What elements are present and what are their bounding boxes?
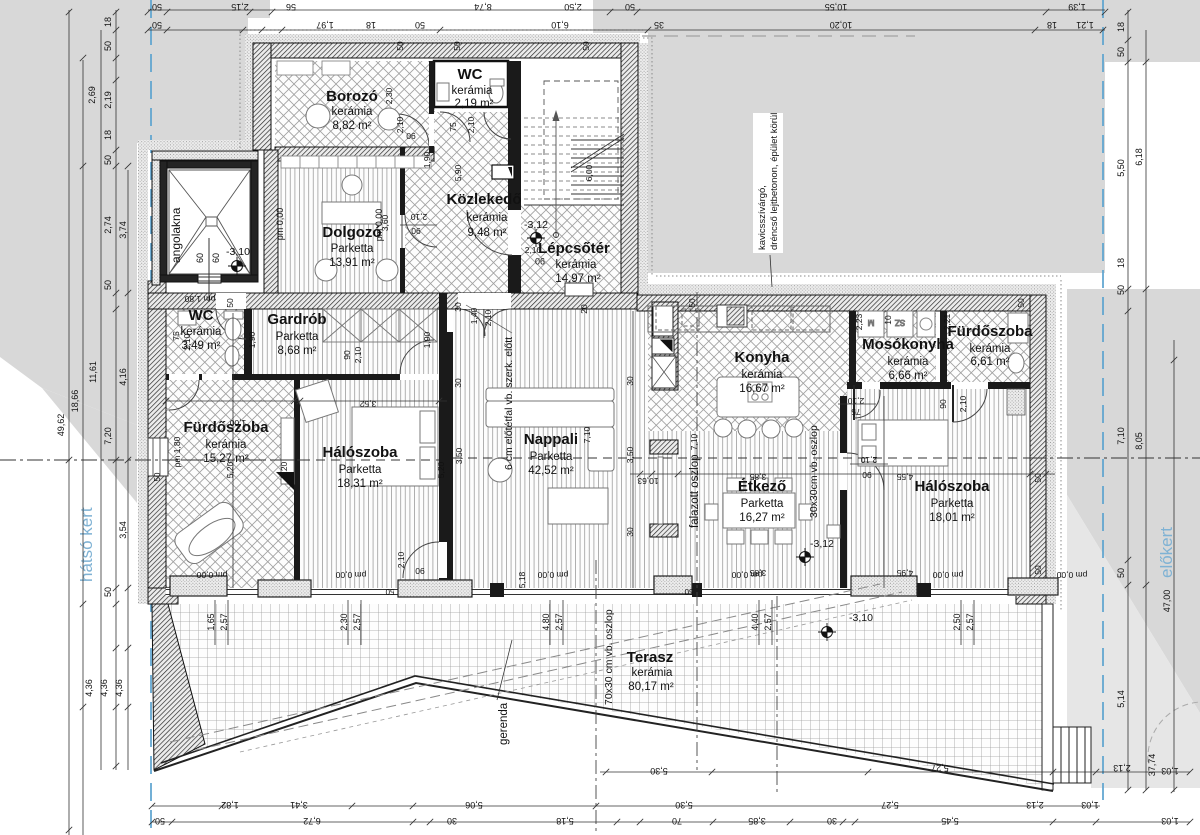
door arc WC2 (216, 293, 246, 309)
svg-text:90: 90 (406, 131, 416, 141)
door arc Fürdőszoba1 (169, 374, 199, 380)
svg-text:70x30 cm vb. oszlop: 70x30 cm vb. oszlop (603, 609, 615, 705)
svg-text:3,41: 3,41 (290, 800, 308, 810)
window sill box 3 (398, 580, 472, 597)
svg-text:5,18: 5,18 (517, 571, 527, 588)
svg-text:Hálószoba: Hálószoba (322, 444, 398, 461)
svg-text:30: 30 (625, 527, 635, 537)
svg-text:50: 50 (1116, 285, 1126, 295)
svg-text:13,91 m²: 13,91 m² (329, 257, 375, 269)
svg-text:8,82 m²: 8,82 m² (333, 120, 372, 132)
room WC2 floor tile (166, 309, 244, 374)
svg-text:5,18: 5,18 (556, 816, 574, 826)
angolakna walls (160, 161, 258, 168)
svg-text:Közlekedő: Közlekedő (446, 191, 521, 208)
svg-text:2,10: 2,10 (847, 396, 864, 406)
wall Nappali left thin (447, 332, 453, 588)
svg-text:50: 50 (103, 587, 113, 597)
island Konyha (717, 377, 799, 417)
svg-text:1,39: 1,39 (1068, 2, 1086, 12)
terrace floor grid (161, 604, 1042, 786)
svg-text:pm 1,80: pm 1,80 (172, 436, 182, 467)
svg-text:-3,10: -3,10 (226, 246, 250, 258)
svg-text:2,10: 2,10 (410, 212, 427, 222)
svg-text:16,27 m²: 16,27 m² (739, 512, 785, 524)
svg-text:50: 50 (452, 41, 462, 51)
svg-text:3,50: 3,50 (625, 446, 635, 463)
bathtub Fürdőszoba1 (171, 498, 247, 567)
svg-text:50: 50 (153, 472, 162, 481)
room Nappali floor parquet (453, 309, 657, 588)
wall bottom corner piece (148, 588, 178, 604)
svg-text:42,52 m²: 42,52 m² (528, 465, 574, 477)
svg-text:7,10: 7,10 (689, 433, 699, 450)
svg-text:2,50: 2,50 (952, 613, 962, 630)
svg-text:2,57: 2,57 (554, 613, 564, 630)
svg-text:Lépcsőtér: Lépcsőtér (538, 240, 610, 257)
svg-text:1,90: 1,90 (422, 331, 432, 348)
svg-text:75: 75 (448, 122, 458, 132)
room Közlekedő floor tile (434, 112, 508, 152)
svg-text:4,95: 4,95 (896, 568, 913, 578)
wall Konyha/Mosókonyha (849, 311, 856, 382)
svg-text:1,65: 1,65 (206, 613, 216, 630)
svg-text:előkert: előkert (1157, 527, 1176, 578)
angolakna stipple surround (152, 151, 258, 160)
svg-text:60: 60 (195, 253, 205, 263)
window sill box 6 (1008, 578, 1058, 595)
svg-text:2,10: 2,10 (353, 346, 363, 363)
wall main right (1030, 295, 1046, 604)
door arc Gardrób (400, 340, 434, 374)
svg-text:1,90: 1,90 (247, 331, 257, 348)
room Borozó floor tile (275, 61, 435, 147)
window sill box 2 (258, 580, 311, 597)
svg-text:50: 50 (103, 41, 113, 51)
svg-text:2,10: 2,10 (860, 455, 877, 465)
svg-text:90: 90 (862, 470, 872, 480)
svg-text:50: 50 (103, 155, 113, 165)
svg-text:50: 50 (152, 2, 162, 12)
bed Hálószoba1 (352, 407, 438, 486)
wall stair block right (621, 43, 638, 295)
svg-text:2,13: 2,13 (1113, 763, 1131, 773)
svg-text:2,57: 2,57 (352, 613, 362, 630)
svg-text:6,66 m²: 6,66 m² (889, 370, 928, 382)
barrels Borozó (306, 104, 330, 128)
svg-text:1,40: 1,40 (469, 307, 479, 324)
corridor niche box (492, 165, 514, 179)
svg-text:9,48 m²: 9,48 m² (468, 227, 507, 239)
svg-text:pm 0,00: pm 0,00 (537, 570, 568, 580)
svg-text:5,90: 5,90 (453, 164, 463, 181)
svg-text:Konyha: Konyha (734, 349, 790, 366)
svg-text:50: 50 (395, 41, 405, 51)
angolakna box (152, 151, 258, 302)
svg-text:5,14: 5,14 (1116, 690, 1126, 708)
svg-text:WC: WC (189, 307, 214, 324)
svg-text:5,27: 5,27 (881, 800, 899, 810)
room Mosókonyha floor tile (856, 311, 936, 382)
bottom glass wall line (166, 588, 1030, 596)
svg-text:35: 35 (654, 20, 664, 30)
door arc WC1 (440, 112, 470, 142)
svg-text:50: 50 (1116, 47, 1126, 57)
dashed utility arc bottom right (1148, 702, 1200, 762)
room Hálószoba2 floor parquet (847, 389, 1030, 588)
bed Hálószoba2 (858, 420, 948, 466)
svg-text:49,62: 49,62 (56, 414, 66, 437)
svg-text:18: 18 (1116, 258, 1126, 268)
wardrobes Gardrób (323, 309, 437, 342)
svg-text:Étkező: Étkező (738, 478, 786, 495)
svg-text:18: 18 (103, 130, 113, 140)
svg-text:50: 50 (1033, 473, 1043, 483)
washer dryer Mosókonyha (858, 311, 884, 337)
svg-text:4,80: 4,80 (541, 613, 551, 630)
fixtures Fürdőszoba2 (1007, 389, 1025, 415)
toilet WC1 (489, 83, 503, 103)
bidet WC2 (225, 346, 239, 366)
svg-text:50: 50 (225, 298, 235, 308)
svg-text:15,27 m²: 15,27 m² (203, 453, 249, 465)
svg-text:50: 50 (1016, 298, 1026, 308)
desk Dolgozó (322, 202, 381, 224)
svg-text:4,36: 4,36 (114, 679, 124, 697)
svg-text:Parketta: Parketta (331, 243, 374, 255)
terrace bottom edge double line (154, 683, 1053, 791)
svg-text:90: 90 (411, 226, 421, 236)
room Dolgozó floor parquet (275, 161, 400, 293)
stair walk line with arrow (555, 116, 557, 237)
svg-text:1,21: 1,21 (1076, 20, 1094, 30)
column axis vertical 3 (776, 596, 778, 792)
svg-text:90: 90 (415, 566, 425, 576)
level marker étkező (796, 548, 814, 566)
svg-text:30: 30 (447, 816, 457, 826)
gravel stipple band right of stair block (638, 43, 648, 295)
svg-text:2,10: 2,10 (958, 395, 968, 412)
svg-text:8,68 m²: 8,68 m² (278, 345, 317, 357)
svg-text:angolakna: angolakna (169, 207, 183, 263)
wall WC2 right (244, 309, 252, 374)
svg-text:18,66: 18,66 (70, 390, 80, 413)
svg-text:-3,12: -3,12 (810, 538, 834, 550)
sink WC2 (178, 311, 196, 325)
svg-text:50: 50 (155, 816, 165, 826)
svg-text:3,50: 3,50 (454, 447, 464, 464)
sink WC1 (437, 83, 449, 101)
svg-text:6,00: 6,00 (584, 164, 594, 181)
svg-text:kerámia: kerámia (556, 259, 598, 271)
room Konyha floor tile (648, 311, 850, 431)
svg-text:8,74: 8,74 (474, 2, 492, 12)
section line horizontal right (1030, 457, 1200, 459)
wall under Mosókonyha/Fürdőszoba2 (847, 382, 862, 389)
section dashes through rooms (166, 458, 1030, 460)
svg-text:30x30cm vb. oszlop: 30x30cm vb. oszlop (808, 425, 820, 518)
room Étkező floor parquet (657, 431, 840, 588)
dining table Étkező (723, 493, 795, 528)
svg-text:pm 0,00: pm 0,00 (932, 570, 963, 580)
svg-text:Hálószoba: Hálószoba (914, 478, 990, 495)
svg-text:50: 50 (1116, 568, 1126, 578)
svg-text:2,57: 2,57 (965, 613, 975, 630)
svg-text:6,10: 6,10 (551, 20, 569, 30)
toilet WC2 (224, 311, 243, 319)
svg-text:18,31 m²: 18,31 m² (337, 478, 383, 490)
svg-text:Terasz: Terasz (627, 649, 673, 666)
svg-text:5,06: 5,06 (465, 800, 483, 810)
gravel stipple band above angolakna wall (138, 140, 262, 150)
svg-text:7,10: 7,10 (1116, 427, 1126, 445)
svg-text:2,19: 2,19 (103, 91, 113, 109)
svg-text:30: 30 (625, 376, 635, 386)
svg-text:3,54: 3,54 (118, 521, 128, 539)
wall upper block left (253, 43, 271, 150)
svg-text:1,03: 1,03 (1161, 816, 1179, 826)
svg-text:kerámia: kerámia (742, 369, 784, 381)
room Fürdőszoba1 floor tile (166, 380, 294, 588)
svg-text:80,17 m²: 80,17 m² (628, 681, 674, 693)
svg-text:Parketta: Parketta (530, 451, 573, 463)
svg-text:3,74: 3,74 (118, 221, 128, 239)
svg-text:Dolgozó: Dolgozó (322, 224, 381, 241)
svg-text:pm 1,80: pm 1,80 (184, 294, 215, 304)
stair treads dashed upper flight (524, 118, 624, 199)
svg-text:5,50: 5,50 (1116, 159, 1126, 177)
column axis vertical 2 (696, 292, 698, 770)
terrain light gray right-bottom (1067, 495, 1200, 788)
wall stair left (508, 61, 521, 210)
room Gardrób floor parquet (252, 309, 439, 374)
terrace left retaining wedge (152, 604, 205, 770)
angolakna envelope (169, 170, 250, 274)
door arc WC upper small (484, 112, 511, 139)
svg-text:10,20: 10,20 (830, 20, 853, 30)
wall Gardrób/Hálószoba1 right (439, 293, 447, 542)
svg-text:2,19 m²: 2,19 m² (455, 98, 494, 110)
level marker stairs (527, 229, 545, 247)
svg-text:falazott oszlop: falazott oszlop (689, 454, 701, 528)
gravel stipple band right of main block (1046, 284, 1056, 604)
gravel stipple band above right section wall (637, 284, 1054, 295)
svg-text:18: 18 (1116, 22, 1126, 32)
svg-text:M: M (867, 318, 874, 327)
svg-text:Parketta: Parketta (931, 498, 974, 510)
svg-text:hátsó kert: hátsó kert (77, 507, 96, 582)
svg-text:Fürdőszoba: Fürdőszoba (184, 419, 270, 436)
svg-text:2,57: 2,57 (219, 613, 229, 630)
svg-text:5,20: 5,20 (279, 461, 289, 478)
svg-text:50: 50 (152, 20, 162, 30)
svg-text:Parketta: Parketta (741, 498, 784, 510)
svg-text:4,36: 4,36 (99, 679, 109, 697)
svg-text:2,10: 2,10 (395, 116, 405, 133)
svg-text:1,03: 1,03 (1081, 800, 1099, 810)
svg-text:kerámia: kerámia (206, 439, 248, 451)
kavicsszívárgó label box (753, 113, 783, 253)
door arc Dolgozó (405, 215, 437, 247)
counter Konyha (648, 306, 830, 332)
blue property line right (1102, 0, 1104, 800)
vanity Fürdőszoba1 (281, 418, 294, 484)
svg-text:4,40: 4,40 (750, 613, 760, 630)
wall main left (148, 281, 166, 604)
svg-text:6,72: 6,72 (303, 816, 321, 826)
svg-text:2,23: 2,23 (854, 313, 864, 330)
svg-text:18: 18 (1047, 20, 1057, 30)
window sill box 1 (170, 576, 227, 596)
gravel stipple band left of main block (138, 150, 148, 604)
svg-text:5,27: 5,27 (931, 763, 949, 773)
svg-text:kerámia: kerámia (888, 356, 930, 368)
window sill box 5 (851, 576, 917, 596)
svg-text:kerámia: kerámia (452, 85, 494, 97)
wall Mosókonyha/Fürdőszoba2 (940, 311, 947, 382)
rug Hálószoba1 (296, 380, 339, 423)
svg-text:90: 90 (535, 256, 545, 266)
svg-text:50: 50 (687, 298, 697, 308)
svg-text:70: 70 (672, 816, 682, 826)
svg-text:2,50: 2,50 (564, 2, 582, 12)
door arc Borozó (397, 114, 429, 146)
room Fürdőszoba2 floor tile (944, 311, 1030, 382)
svg-text:37,74: 37,74 (1147, 754, 1157, 777)
svg-text:WC: WC (458, 66, 483, 83)
svg-text:Fürdőszoba: Fürdőszoba (948, 323, 1034, 340)
svg-text:2,69: 2,69 (87, 86, 97, 104)
svg-text:kavicsszívárgó,: kavicsszívárgó, (757, 185, 768, 250)
svg-text:2,15: 2,15 (231, 2, 249, 12)
wall main horizontal right part (637, 295, 1046, 311)
svg-text:kerámia: kerámia (181, 326, 223, 338)
terrace stairs right (1053, 727, 1091, 783)
svg-text:2,30: 2,30 (384, 87, 394, 104)
terrain dashed boundary in gray (620, 35, 915, 37)
gravel stipple band left of upper block (245, 34, 253, 150)
level marker angolakna (228, 257, 246, 275)
terrain gray right side (1067, 289, 1200, 713)
svg-text:dréncső lejtbetonon, épület kö: dréncső lejtbetonon, épület körül (769, 113, 780, 250)
svg-text:6,18: 6,18 (1134, 148, 1144, 166)
svg-text:8,05: 8,05 (1134, 432, 1144, 450)
door opening hall (1,40) (458, 293, 511, 309)
sofa Nappali (486, 388, 614, 401)
svg-text:11,61: 11,61 (88, 361, 98, 383)
svg-text:2,30: 2,30 (339, 613, 349, 630)
svg-text:Borozó: Borozó (326, 88, 378, 105)
svg-text:18,01 m²: 18,01 m² (929, 512, 975, 524)
svg-text:gerenda: gerenda (498, 702, 510, 745)
svg-text:4,55: 4,55 (896, 472, 913, 482)
svg-text:7,20: 7,20 (103, 427, 113, 445)
svg-text:50: 50 (415, 20, 425, 30)
svg-text:1,82: 1,82 (221, 800, 239, 810)
terrain gray top-left (0, 0, 270, 425)
svg-text:30: 30 (453, 378, 463, 388)
door arc Fürdőszoba2 (952, 385, 954, 422)
svg-text:1,03: 1,03 (1161, 766, 1179, 776)
svg-text:4,36: 4,36 (84, 679, 94, 697)
svg-text:75: 75 (171, 331, 181, 341)
window left wall Fürdőszoba1 (148, 438, 168, 476)
room Hálószoba1 floor parquet (300, 380, 439, 588)
wall upper block top (253, 43, 638, 58)
svg-text:47,00: 47,00 (1162, 590, 1172, 613)
svg-text:90: 90 (938, 399, 948, 409)
closet Dolgozó (281, 156, 431, 168)
svg-text:2,57: 2,57 (763, 613, 773, 630)
wall Borozó/Dolgozó (275, 147, 434, 161)
svg-text:-3,10: -3,10 (849, 612, 873, 624)
svg-text:Parketta: Parketta (276, 331, 319, 343)
svg-text:pm 0,00: pm 0,00 (731, 570, 762, 580)
terrace right wall (1042, 604, 1053, 790)
wall WC2/Gardrób bottom (166, 374, 202, 380)
stair dashed perimeter (544, 81, 618, 199)
svg-text:pm 0,00: pm 0,00 (275, 208, 285, 241)
door arc Hálószoba2 (840, 453, 847, 490)
gerenda leader + label (497, 640, 512, 700)
svg-text:10: 10 (883, 315, 893, 325)
svg-text:1,97: 1,97 (316, 20, 334, 30)
svg-text:60: 60 (211, 253, 221, 263)
svg-text:1,90: 1,90 (422, 151, 432, 168)
terrain gray top-right block (593, 0, 1200, 273)
svg-text:2,10: 2,10 (396, 551, 406, 568)
Lépcsőtér sill opening (565, 283, 593, 296)
shower mark Fürdőszoba1 (276, 472, 294, 490)
svg-text:Gardrób: Gardrób (267, 311, 326, 328)
room WC1 outline (434, 61, 508, 107)
svg-text:kerámia: kerámia (332, 106, 374, 118)
svg-text:50: 50 (103, 280, 113, 290)
svg-text:30: 30 (827, 816, 837, 826)
Borozó top cabinets (277, 61, 313, 75)
svg-text:50: 50 (581, 41, 591, 51)
gerenda dashed beam lines (170, 584, 880, 742)
svg-text:14,97 m²: 14,97 m² (555, 273, 601, 285)
svg-text:7,10: 7,10 (582, 426, 592, 443)
dotted offset line around building (240, 30, 1061, 610)
svg-text:2,74: 2,74 (103, 216, 113, 234)
room Lépcsőtér floor tile (521, 205, 621, 293)
column masonry Konyha/Nappali (652, 302, 678, 390)
svg-text:90: 90 (342, 350, 352, 360)
svg-text:50: 50 (1033, 565, 1043, 575)
svg-text:6 cm előtétfal vb. szerk. előt: 6 cm előtétfal vb. szerk. előtt (503, 337, 515, 470)
svg-text:5,30: 5,30 (650, 766, 668, 776)
svg-text:75: 75 (851, 407, 861, 417)
svg-text:pm 0,00: pm 0,00 (196, 570, 227, 580)
svg-text:5,45: 5,45 (941, 816, 959, 826)
blue property line left (150, 0, 152, 835)
window sill box 4 (654, 576, 692, 594)
door arc Lépcsőtér/corridor (508, 210, 521, 255)
svg-text:5,30: 5,30 (675, 800, 693, 810)
wall angolakna right band (264, 150, 278, 293)
svg-text:56: 56 (286, 2, 296, 12)
door arc Mosókonyha (853, 385, 855, 420)
svg-text:10,63: 10,63 (637, 476, 659, 486)
bottom wall piers (490, 583, 504, 597)
svg-text:4,16: 4,16 (118, 368, 128, 386)
svg-text:18: 18 (366, 20, 376, 30)
svg-text:kerámia: kerámia (632, 667, 674, 679)
svg-text:2,13: 2,13 (1026, 800, 1044, 810)
section line horizontal left (0, 459, 310, 461)
